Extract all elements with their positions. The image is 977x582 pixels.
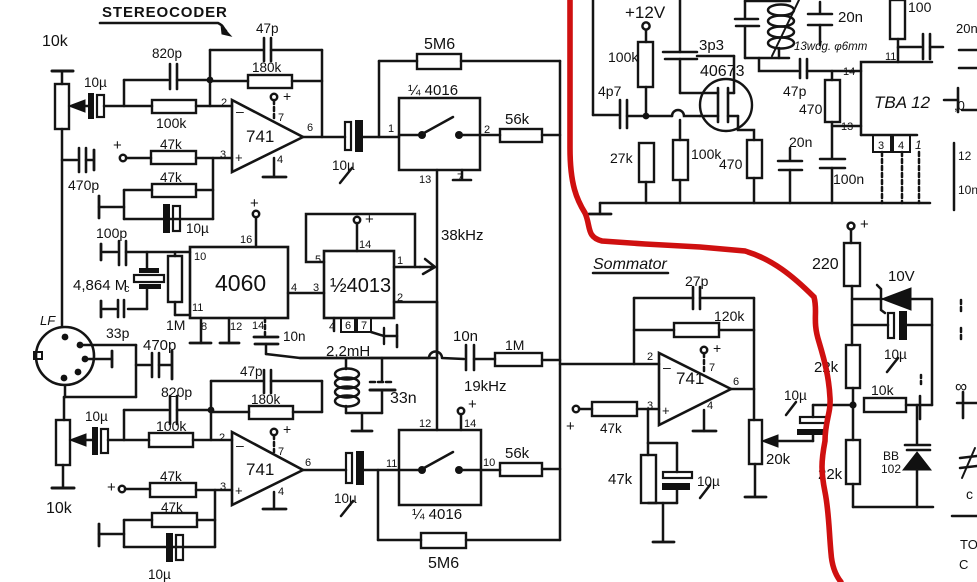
svg-text:10µ: 10µ — [332, 158, 355, 173]
svg-text:20n: 20n — [789, 134, 812, 150]
svg-text:10µ: 10µ — [148, 567, 171, 582]
svg-text:27p: 27p — [685, 273, 709, 289]
svg-text:1: 1 — [915, 138, 922, 152]
svg-text:10: 10 — [194, 251, 206, 263]
svg-text:10k: 10k — [42, 33, 69, 50]
svg-text:4,864 M: 4,864 M — [73, 277, 127, 294]
svg-text:+: + — [235, 483, 243, 498]
svg-text:2: 2 — [647, 351, 653, 363]
svg-text:470: 470 — [799, 101, 823, 117]
svg-text:1M: 1M — [166, 317, 185, 333]
svg-text:741: 741 — [246, 127, 274, 146]
svg-text:100k: 100k — [156, 418, 187, 434]
svg-text:10µ: 10µ — [784, 388, 807, 403]
svg-text:6: 6 — [307, 122, 313, 134]
svg-text:6: 6 — [305, 457, 311, 469]
svg-text:12: 12 — [958, 149, 972, 163]
svg-text:11: 11 — [386, 458, 397, 470]
svg-text:100n: 100n — [833, 171, 864, 187]
svg-text:+: + — [566, 418, 575, 435]
svg-text:14: 14 — [252, 320, 264, 332]
svg-text:TO: TO — [960, 537, 977, 552]
svg-text:14: 14 — [843, 66, 855, 78]
svg-text:BB: BB — [883, 449, 899, 463]
svg-text:820p: 820p — [161, 384, 192, 400]
svg-text:10k: 10k — [871, 382, 895, 398]
svg-text:47k: 47k — [160, 137, 182, 152]
svg-text:+: + — [860, 216, 869, 233]
svg-text:11: 11 — [192, 302, 203, 314]
svg-text:741: 741 — [676, 369, 704, 388]
svg-text:33n: 33n — [390, 390, 417, 407]
svg-text:7: 7 — [278, 446, 284, 458]
svg-text:4060: 4060 — [215, 270, 266, 296]
svg-text:STEREOCODER: STEREOCODER — [102, 4, 228, 21]
svg-text:10n: 10n — [453, 328, 478, 345]
svg-text:5: 5 — [315, 254, 321, 266]
svg-text:1M: 1M — [505, 337, 524, 353]
svg-text:10n: 10n — [283, 329, 306, 344]
svg-text:–: – — [236, 437, 244, 453]
svg-text:470p: 470p — [143, 337, 176, 354]
svg-text:47p: 47p — [240, 364, 263, 379]
svg-text:10µ: 10µ — [85, 409, 108, 424]
svg-text:Sommator: Sommator — [593, 256, 667, 273]
svg-text:741: 741 — [246, 460, 274, 479]
svg-text:∞: ∞ — [955, 377, 967, 396]
svg-text:12: 12 — [230, 321, 242, 333]
svg-text:102: 102 — [881, 462, 901, 476]
svg-text:7: 7 — [709, 362, 715, 374]
svg-text:47k: 47k — [608, 471, 633, 488]
svg-text:TBA 12: TBA 12 — [874, 93, 931, 112]
svg-text:+: + — [283, 88, 291, 104]
svg-text:47k: 47k — [161, 500, 183, 515]
svg-text:C: C — [959, 557, 968, 572]
svg-text:+: + — [107, 479, 116, 496]
svg-text:180k: 180k — [251, 392, 281, 407]
svg-text:1: 1 — [388, 123, 394, 135]
svg-text:20k: 20k — [766, 451, 791, 468]
svg-text:13: 13 — [841, 121, 853, 133]
svg-text:10µ: 10µ — [84, 75, 107, 90]
svg-text:470: 470 — [719, 156, 743, 172]
svg-text:33p: 33p — [106, 325, 130, 341]
svg-text:13wdg. φ6mm: 13wdg. φ6mm — [794, 41, 868, 53]
svg-text:c: c — [966, 486, 973, 502]
svg-text:27k: 27k — [610, 150, 634, 166]
svg-text:+: + — [235, 150, 243, 165]
svg-text:100k: 100k — [691, 146, 722, 162]
svg-text:+: + — [250, 195, 259, 212]
svg-text:4: 4 — [898, 140, 904, 152]
svg-text:20n: 20n — [838, 9, 863, 26]
svg-text:56k: 56k — [505, 445, 530, 462]
svg-text:5M6: 5M6 — [428, 555, 459, 572]
svg-text:10µ: 10µ — [186, 221, 209, 236]
svg-text:+: + — [713, 340, 721, 356]
svg-text:47p: 47p — [256, 21, 279, 36]
svg-text:6: 6 — [733, 376, 739, 388]
svg-text:4: 4 — [278, 486, 284, 498]
svg-text:½4013: ½4013 — [330, 275, 391, 297]
svg-text:47k: 47k — [160, 469, 182, 484]
svg-text:+: + — [468, 396, 477, 413]
svg-text:–: – — [236, 103, 244, 119]
svg-text:14: 14 — [464, 418, 476, 430]
svg-text:3: 3 — [878, 140, 884, 152]
svg-text:¼ 4016: ¼ 4016 — [412, 506, 462, 523]
svg-text:4: 4 — [277, 154, 283, 166]
svg-text:470p: 470p — [68, 177, 99, 193]
svg-text:+: + — [365, 211, 374, 228]
svg-text:3p3: 3p3 — [699, 37, 724, 54]
svg-text:,0: ,0 — [954, 98, 965, 113]
svg-text:+: + — [283, 421, 291, 437]
svg-text:19kHz: 19kHz — [464, 378, 507, 395]
svg-text:4p7: 4p7 — [598, 83, 622, 99]
svg-text:120k: 120k — [714, 308, 745, 324]
svg-text:38kHz: 38kHz — [441, 227, 484, 244]
svg-text:47k: 47k — [600, 421, 622, 436]
svg-text:10n: 10n — [958, 183, 977, 197]
svg-text:3: 3 — [220, 149, 226, 161]
svg-text:220: 220 — [812, 256, 839, 273]
svg-text:14: 14 — [359, 239, 371, 251]
svg-text:6: 6 — [345, 320, 351, 332]
svg-text:47k: 47k — [160, 170, 182, 185]
svg-text:LF: LF — [40, 313, 56, 328]
svg-text:10k: 10k — [46, 500, 73, 517]
svg-text:2: 2 — [221, 97, 227, 109]
svg-text:100k: 100k — [608, 49, 639, 65]
svg-text:820p: 820p — [152, 46, 182, 61]
svg-text:5M6: 5M6 — [424, 36, 455, 53]
svg-text:100: 100 — [908, 0, 932, 15]
svg-text:+: + — [662, 403, 670, 418]
svg-text:1: 1 — [397, 255, 403, 267]
svg-text:16: 16 — [240, 234, 252, 246]
svg-text:4: 4 — [707, 400, 713, 412]
svg-text:20n: 20n — [956, 21, 977, 36]
svg-text:100k: 100k — [156, 115, 187, 131]
svg-text:10V: 10V — [888, 268, 915, 285]
svg-text:13: 13 — [419, 174, 431, 186]
svg-text:47p: 47p — [783, 83, 807, 99]
svg-text:40673: 40673 — [700, 63, 745, 80]
svg-text:12: 12 — [419, 418, 431, 430]
svg-text:7: 7 — [278, 112, 284, 124]
svg-text:+: + — [113, 137, 122, 154]
svg-text:100p: 100p — [96, 225, 127, 241]
svg-text:¼ 4016: ¼ 4016 — [408, 82, 458, 99]
svg-text:+12V: +12V — [625, 3, 666, 22]
svg-text:3: 3 — [220, 481, 226, 493]
svg-text:10: 10 — [483, 457, 495, 469]
svg-text:7: 7 — [361, 320, 367, 332]
svg-text:180k: 180k — [252, 60, 282, 75]
svg-text:10µ: 10µ — [334, 491, 357, 506]
svg-text:56k: 56k — [505, 111, 530, 128]
svg-text:–: – — [663, 359, 671, 375]
svg-text:2: 2 — [219, 432, 225, 444]
svg-text:c: c — [124, 283, 130, 295]
